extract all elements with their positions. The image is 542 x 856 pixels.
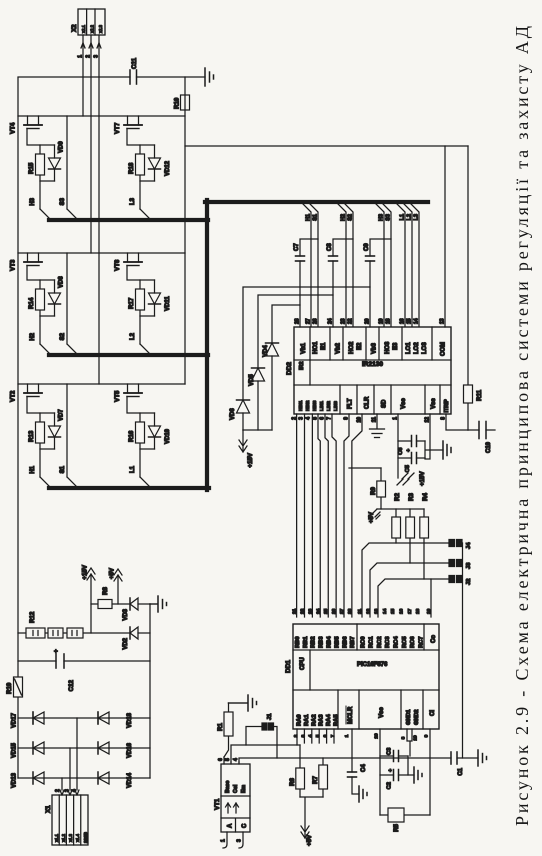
svg-text:RC3: RC3 xyxy=(385,636,391,648)
svg-text:2: 2 xyxy=(55,789,61,792)
wire: R6/R7 join to +5V xyxy=(300,797,323,838)
supply arrow +15V (bootstrap feed) xyxy=(239,430,247,452)
capacitor C4 xyxy=(348,772,357,777)
DD2 right pin-cell dividers xyxy=(310,327,432,360)
svg-text:GND2: GND2 xyxy=(414,709,420,725)
connector X2 (motor output) xyxy=(78,9,105,35)
transistor VT2 (high side) xyxy=(24,392,42,394)
resistor R19 (varistor in DC+ rail) xyxy=(14,677,23,697)
svg-text:C11: C11 xyxy=(131,57,138,69)
svg-text:J2: J2 xyxy=(466,579,472,585)
node L1 merge into bus xyxy=(140,477,151,488)
svg-text:Vcc: Vcc xyxy=(379,707,385,718)
capacitor C1 xyxy=(451,752,457,764)
svg-text:PIC16F876: PIC16F876 xyxy=(357,662,388,668)
resistor R18 xyxy=(136,154,145,175)
svg-text:RB4: RB4 xyxy=(327,636,333,648)
svg-text:18: 18 xyxy=(386,318,392,324)
svg-text:2: 2 xyxy=(293,734,299,737)
svg-text:15: 15 xyxy=(390,608,396,614)
svg-text:27: 27 xyxy=(306,318,312,324)
svg-text:x2.3: x2.3 xyxy=(98,24,103,33)
svg-text:LO3: LO3 xyxy=(422,342,428,354)
diode VD9 xyxy=(54,145,56,181)
wire: RB6 to DD2 xyxy=(344,414,349,617)
bridge rectifier column 2 (VD15 / VD16) xyxy=(18,747,150,749)
svg-text:COM: COM xyxy=(441,342,447,356)
svg-text:R4: R4 xyxy=(422,493,429,501)
svg-text:27: 27 xyxy=(339,608,345,614)
wire: CI / C1 net xyxy=(429,729,431,815)
svg-text:18: 18 xyxy=(415,608,421,614)
svg-text:C8: C8 xyxy=(327,243,333,251)
svg-text:HO3: HO3 xyxy=(385,341,391,354)
svg-text:R12: R12 xyxy=(29,611,36,623)
resistor R11 xyxy=(467,146,469,430)
svg-text:VD11: VD11 xyxy=(165,296,171,311)
wire: RA stub xyxy=(326,729,328,743)
svg-text:RC6: RC6 xyxy=(410,636,416,648)
svg-text:x1.4: x1.4 xyxy=(75,833,80,842)
svg-text:DD2: DD2 xyxy=(286,362,293,375)
wire: signal H3 from bus to DD2 xyxy=(374,202,384,327)
svg-text:FLT: FLT xyxy=(348,398,354,409)
svg-text:C2: C2 xyxy=(387,782,393,789)
svg-text:R16: R16 xyxy=(128,430,135,442)
svg-text:24: 24 xyxy=(315,608,321,614)
svg-text:RA3: RA3 xyxy=(319,714,325,726)
wire: L3 gate line xyxy=(127,129,140,210)
svg-text:+15V: +15V xyxy=(419,471,426,486)
svg-text:23: 23 xyxy=(307,608,313,614)
svg-text:R14: R14 xyxy=(28,297,35,309)
wire: phase column 1 (drain-source chain) xyxy=(18,383,185,385)
svg-text:GND1: GND1 xyxy=(406,709,412,725)
svg-text:4: 4 xyxy=(306,417,312,420)
VT1 photo arrows xyxy=(226,803,239,813)
svg-text:J1: J1 xyxy=(267,713,273,720)
ground (C1) xyxy=(478,750,487,766)
wire: C11 vertical branch (top-right corner down) xyxy=(18,76,205,78)
svg-text:13: 13 xyxy=(374,608,380,614)
svg-text:6: 6 xyxy=(323,734,329,737)
resistor R8 xyxy=(98,600,112,609)
svg-text:11: 11 xyxy=(357,609,363,614)
svg-text:VD6: VD6 xyxy=(230,408,236,420)
svg-text:25: 25 xyxy=(323,608,329,614)
svg-text:DD1: DD1 xyxy=(285,660,292,673)
svg-text:L3: L3 xyxy=(414,214,420,220)
wire: S3 source sense line xyxy=(67,116,78,220)
wire: AC phase taps to X1 xyxy=(62,718,77,790)
transistor VT6 (low side) xyxy=(124,261,142,263)
svg-text:VD17: VD17 xyxy=(12,712,18,728)
svg-text:CLR: CLR xyxy=(365,396,371,409)
svg-text:VT6: VT6 xyxy=(114,259,121,271)
diode VD13 xyxy=(33,772,44,784)
svg-text:VD15: VD15 xyxy=(12,742,18,758)
svg-text:CPU: CPU xyxy=(300,657,306,670)
svg-text:RB5: RB5 xyxy=(334,636,340,648)
svg-text:VD4: VD4 xyxy=(263,345,269,357)
svg-text:L1: L1 xyxy=(400,214,406,220)
capacitor C6 xyxy=(398,440,425,442)
svg-text:3: 3 xyxy=(237,839,243,842)
wire: X2 phase wires xyxy=(83,35,99,384)
svg-text:R7: R7 xyxy=(312,776,319,784)
svg-text:3: 3 xyxy=(65,789,71,792)
wire: RB4 to DD2 xyxy=(325,414,328,617)
svg-text:14: 14 xyxy=(382,608,388,614)
svg-text:S3: S3 xyxy=(386,214,392,221)
svg-text:J4: J4 xyxy=(466,542,472,549)
wire: phase column 2 (drain-source chain) xyxy=(18,252,185,254)
svg-text:19: 19 xyxy=(413,735,419,741)
svg-text:21: 21 xyxy=(292,608,298,614)
svg-text:220B: 220B xyxy=(83,831,88,843)
wire: sense line down to COM/R11 xyxy=(185,145,468,147)
svg-text:VD10: VD10 xyxy=(165,428,171,444)
svg-text:VT2: VT2 xyxy=(10,390,17,402)
wire: signal S1 from bus to DD2 xyxy=(308,202,318,327)
resistor R7 xyxy=(322,758,324,797)
wire: cap join xyxy=(425,441,443,458)
wire: RA stub xyxy=(311,729,313,743)
svg-text:22: 22 xyxy=(300,608,306,614)
svg-text:VD12: VD12 xyxy=(165,160,171,176)
transistor VT7 (low side) xyxy=(124,124,142,126)
svg-text:16: 16 xyxy=(399,608,405,614)
diode VD3 (5V zener) xyxy=(130,598,138,610)
bus: thick run to DD2 splits xyxy=(205,200,428,204)
svg-text:Vcc: Vcc xyxy=(401,398,407,409)
svg-text:RA0: RA0 xyxy=(297,714,303,726)
wire: RC0 to J4 net xyxy=(362,543,449,617)
wire: RA stub xyxy=(333,729,335,743)
wire: bottom (negative) rail xyxy=(149,604,151,778)
wire: H1 gate line xyxy=(27,397,40,478)
svg-text:RC5: RC5 xyxy=(402,636,408,648)
DD2 chip name xyxy=(309,360,311,385)
svg-text:HIN3: HIN3 xyxy=(312,400,317,411)
svg-text:C10: C10 xyxy=(486,441,492,453)
svg-text:28: 28 xyxy=(347,608,353,614)
resistor R2 xyxy=(395,509,397,543)
svg-text:H1: H1 xyxy=(306,214,312,221)
wire: L2 gate line xyxy=(127,266,140,345)
svg-text:LIN3: LIN3 xyxy=(333,401,338,411)
svg-text:E3: E3 xyxy=(393,342,399,350)
svg-text:C: C xyxy=(242,823,248,828)
diode VD16 xyxy=(98,742,109,754)
svg-text:20: 20 xyxy=(374,733,380,739)
wire: H3 gate line xyxy=(27,129,40,210)
capacitor C3 branch xyxy=(380,755,408,757)
svg-text:RA2: RA2 xyxy=(311,714,317,726)
ground (top right, power) xyxy=(205,68,214,86)
wire: Vb2 line with bootstrap cap xyxy=(333,239,353,327)
wire: MCLR line with C4 xyxy=(352,729,359,794)
svg-text:LO2: LO2 xyxy=(414,342,420,354)
capacitor C9 xyxy=(366,256,375,261)
svg-text:CI: CI xyxy=(430,710,436,716)
diode VD10 xyxy=(154,413,156,449)
svg-text:R15: R15 xyxy=(28,162,35,174)
diode VD4 + wire to Vb1 xyxy=(272,305,300,430)
svg-text:22: 22 xyxy=(348,318,354,324)
jumper J1 xyxy=(262,723,267,730)
bridge rectifier column 3 (VD13 / VD14) xyxy=(18,777,150,779)
svg-text:RC4: RC4 xyxy=(394,636,400,648)
svg-text:15: 15 xyxy=(407,318,413,324)
svg-text:6: 6 xyxy=(218,758,224,761)
svg-text:VD5: VD5 xyxy=(249,374,255,386)
svg-text:C7: C7 xyxy=(294,243,300,251)
svg-text:12: 12 xyxy=(365,608,371,614)
supply arrow +5V (bottom) xyxy=(301,826,309,838)
svg-text:RB6: RB6 xyxy=(342,636,348,648)
svg-text:8: 8 xyxy=(401,736,407,739)
svg-text:Em: Em xyxy=(241,785,247,793)
wire: COM line to sense xyxy=(444,146,446,327)
svg-text:RB7: RB7 xyxy=(350,636,356,648)
bus: thick trunk horizontal xyxy=(205,200,209,490)
resistor R3 xyxy=(409,509,411,563)
svg-text:+15V: +15V xyxy=(82,564,89,579)
wire: H2 gate line xyxy=(27,266,40,345)
svg-text:Col: Col xyxy=(233,784,239,793)
wire: signal L1 from bus to DD2 xyxy=(395,202,405,327)
X1 pin ticks and numbers xyxy=(60,790,79,795)
svg-text:RC1: RC1 xyxy=(369,636,375,648)
wire: RC1 to J3 net xyxy=(370,563,449,617)
optocoupler VT1 block xyxy=(221,764,250,832)
svg-text:C1: C1 xyxy=(458,767,464,775)
svg-text:R19: R19 xyxy=(6,682,13,694)
wire: phase column 3 (drain-source chain) xyxy=(18,115,185,117)
svg-text:4: 4 xyxy=(308,734,314,737)
transistor VT3 (high side) xyxy=(24,261,42,263)
svg-text:1: 1 xyxy=(344,734,350,737)
diode VD7 xyxy=(54,413,56,449)
diode VD8 xyxy=(54,280,56,316)
svg-text:S2: S2 xyxy=(348,214,354,221)
svg-text:RB1: RB1 xyxy=(303,636,309,648)
capacitor C5 xyxy=(398,457,425,459)
svg-text:RB2: RB2 xyxy=(311,636,317,648)
svg-text:RA1: RA1 xyxy=(304,714,310,726)
svg-text:MCLR: MCLR xyxy=(348,706,354,724)
svg-text:H3: H3 xyxy=(379,214,385,221)
svg-text:VD8: VD8 xyxy=(59,276,65,288)
svg-text:RB3: RB3 xyxy=(319,636,325,648)
resistor R14 xyxy=(36,289,45,310)
capacitor C10 xyxy=(468,429,495,431)
svg-text:19: 19 xyxy=(379,318,385,324)
svg-text:4: 4 xyxy=(233,758,239,761)
svg-text:x1.3: x1.3 xyxy=(68,833,73,842)
supply arrow +5V xyxy=(114,569,122,604)
svg-text:VD18: VD18 xyxy=(127,712,133,728)
svg-text:RB0: RB0 xyxy=(295,636,301,648)
svg-text:R13: R13 xyxy=(28,430,35,442)
svg-text:Vb3: Vb3 xyxy=(372,342,378,354)
wire: Vb1 line with bootstrap cap xyxy=(300,239,318,327)
wire: S1 source sense line xyxy=(67,384,78,488)
svg-text:R3: R3 xyxy=(408,493,415,501)
ground (MCLR/C4) xyxy=(359,786,367,802)
svg-text:LIN1: LIN1 xyxy=(319,401,324,411)
capacitor C2 branch xyxy=(380,774,414,776)
wire: bootstrap junction xyxy=(243,429,272,431)
CPU DD1 PIC16F876 outline xyxy=(293,624,439,729)
wire: L1 gate line xyxy=(127,397,140,478)
svg-text:H2: H2 xyxy=(30,332,36,340)
svg-text:HIN2: HIN2 xyxy=(305,400,310,411)
svg-text:SD: SD xyxy=(382,399,388,408)
svg-text:L2: L2 xyxy=(130,332,136,340)
svg-text:E1: E1 xyxy=(321,342,327,350)
wire: RB1 to DD2 xyxy=(304,414,306,617)
svg-text:VT5: VT5 xyxy=(114,390,121,402)
wire: Vcc(20) line xyxy=(379,729,381,815)
svg-text:14: 14 xyxy=(414,318,420,324)
wire: Vb3 line with bootstrap cap xyxy=(370,239,391,327)
svg-text:R9: R9 xyxy=(370,487,377,495)
wire: RB2 to DD2 xyxy=(311,414,313,617)
svg-text:x2.2: x2.2 xyxy=(90,24,95,33)
wire: ITRIP line xyxy=(446,414,468,430)
svg-text:16: 16 xyxy=(400,318,406,324)
svg-text:R6: R6 xyxy=(289,778,296,786)
node L3 merge into bus xyxy=(140,209,151,220)
svg-text:IR2130: IR2130 xyxy=(362,361,383,368)
svg-text:H3: H3 xyxy=(30,197,36,205)
svg-text:+: + xyxy=(53,649,60,653)
svg-text:R5: R5 xyxy=(393,823,400,831)
svg-text:+5V: +5V xyxy=(306,834,313,846)
svg-text:HO2: HO2 xyxy=(349,341,355,354)
wire: VT1 pin5 net xyxy=(231,745,300,762)
wire: signal L2 from bus to DD2 xyxy=(402,202,412,327)
svg-text:C4: C4 xyxy=(361,764,367,772)
svg-text:RC0: RC0 xyxy=(360,636,366,648)
svg-text:10: 10 xyxy=(426,608,432,614)
resistor R9 xyxy=(380,468,382,509)
svg-text:VD2: VD2 xyxy=(123,637,129,649)
node H1 merge into bus xyxy=(40,477,51,488)
svg-text:HIN1: HIN1 xyxy=(298,400,303,411)
svg-text:S3: S3 xyxy=(60,197,66,205)
wire: RC2 to J2 net xyxy=(378,579,449,617)
capacitor C12 (DC bus electrolytic) xyxy=(18,660,150,662)
svg-text:23: 23 xyxy=(341,318,347,324)
svg-text:J3: J3 xyxy=(466,562,472,569)
wire: R8 branch xyxy=(91,603,150,605)
wire: GND1/GND2 to ground xyxy=(407,729,412,756)
svg-text:Vss: Vss xyxy=(431,398,437,409)
node H3 merge into bus xyxy=(40,209,51,220)
VT1 right pins 6,5,4 xyxy=(224,757,239,764)
wire: signal S3 from bus to DD2 xyxy=(381,202,391,327)
svg-text:S2: S2 xyxy=(60,332,66,340)
DD1 left cell dividers xyxy=(338,690,423,729)
svg-text:Vb2: Vb2 xyxy=(336,342,342,354)
svg-text:VD16: VD16 xyxy=(127,742,133,758)
wire: Co line to J2 net xyxy=(430,579,432,617)
supply arrow +5V xyxy=(371,509,380,519)
svg-text:26: 26 xyxy=(313,318,319,324)
svg-text:RC7: RC7 xyxy=(418,636,424,648)
svg-text:+: + xyxy=(388,769,394,772)
capacitor C8 xyxy=(329,256,338,261)
wire: Vcc line xyxy=(397,414,399,478)
svg-text:Base: Base xyxy=(225,780,231,793)
svg-text:S1: S1 xyxy=(60,465,66,473)
svg-text:L3: L3 xyxy=(130,197,136,205)
svg-text:Co: Co xyxy=(431,635,437,643)
resistor R10 xyxy=(181,95,190,110)
svg-text:+15V: +15V xyxy=(247,452,254,467)
svg-text:5: 5 xyxy=(315,734,321,737)
resistor R4 xyxy=(423,509,425,579)
svg-text:R8: R8 xyxy=(102,587,109,595)
svg-text:ITRIP: ITRIP xyxy=(444,399,450,413)
svg-text:H1: H1 xyxy=(30,465,36,473)
svg-text:1: 1 xyxy=(221,839,227,842)
resistor chain R12 (3 series boxes) xyxy=(18,632,150,634)
svg-text:RA4: RA4 xyxy=(326,714,332,726)
wire: RB5 to DD2 xyxy=(332,414,336,617)
diode VD18 xyxy=(98,712,109,724)
svg-text:VT4: VT4 xyxy=(10,122,17,134)
jumper J2 xyxy=(449,576,455,583)
svg-text:X1: X1 xyxy=(45,805,52,813)
svg-text:IR2: IR2 xyxy=(299,361,305,370)
svg-text:L2: L2 xyxy=(407,214,413,220)
resistor R15 xyxy=(36,154,45,175)
svg-text:H2: H2 xyxy=(341,214,347,221)
ground (bottom rail) xyxy=(150,596,167,612)
svg-text:x1.2: x1.2 xyxy=(61,833,66,842)
svg-text:+: + xyxy=(406,449,412,452)
resistor R1 xyxy=(224,703,229,757)
DD2 left pin-cell dividers xyxy=(340,385,440,414)
svg-text:C6: C6 xyxy=(398,447,404,455)
capacitor C11 xyxy=(130,70,137,84)
diode VD15 xyxy=(33,742,44,754)
svg-text:x1.1: x1.1 xyxy=(54,833,59,842)
svg-text:HO1: HO1 xyxy=(313,341,319,354)
wire: S2 source sense line xyxy=(67,253,78,355)
node H2 merge into bus xyxy=(40,344,51,355)
wire: RB3 to DD2 xyxy=(318,414,320,617)
wire: signal H2 from bus to DD2 xyxy=(336,202,346,327)
svg-text:9: 9 xyxy=(424,734,430,737)
jumper J4 xyxy=(449,540,455,547)
ground (C2/C3) xyxy=(414,767,422,783)
diode VD14 xyxy=(98,772,109,784)
svg-text:R17: R17 xyxy=(128,297,135,309)
node L2 merge into bus xyxy=(140,344,151,355)
svg-text:4: 4 xyxy=(72,789,78,792)
svg-text:17: 17 xyxy=(407,608,413,614)
transistor VT4 (high side) xyxy=(24,124,42,126)
svg-text:R11: R11 xyxy=(476,389,483,401)
svg-text:L1: L1 xyxy=(130,465,136,473)
svg-text:+5V: +5V xyxy=(368,511,375,523)
ground (R1) xyxy=(229,695,257,711)
